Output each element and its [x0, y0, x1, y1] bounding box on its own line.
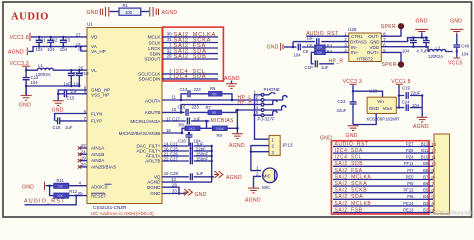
- svg-text:10K: 10K: [317, 46, 324, 50]
- wire sleeve to AGND: [236, 110, 238, 134]
- svg-text:AFILTB: AFILTB: [145, 159, 160, 164]
- svg-text:C2: C2: [52, 38, 58, 43]
- svg-text:HP_R: HP_R: [238, 99, 253, 105]
- svg-text:LRCK: LRCK: [148, 46, 161, 51]
- svg-text:B10: B10: [421, 155, 429, 160]
- wire row SAI2_SDB: [333, 165, 433, 167]
- capacitor C20: [186, 133, 193, 146]
- svg-text:VCC1.8: VCC1.8: [10, 35, 29, 41]
- svg-text:11: 11: [431, 155, 436, 160]
- wire row SAI2_FSA: [333, 172, 433, 174]
- resistor R9: [207, 127, 238, 129]
- wire SAI2_FSA pin1: [162, 47, 218, 49]
- svg-text:100K: 100K: [216, 127, 225, 131]
- capacitor C2: [47, 37, 54, 47]
- svg-text:R11: R11: [57, 178, 65, 183]
- capacitor C1: [36, 37, 43, 47]
- svg-text:1uF: 1uF: [307, 35, 315, 40]
- svg-text:AGND: AGND: [162, 10, 178, 16]
- svg-text:C40: C40: [461, 43, 469, 48]
- wire AFILTB pin22 + capacitor C27: [162, 158, 212, 165]
- svg-text:RESET: RESET: [91, 194, 107, 199]
- capacitor C18 flying cap FLYN/FLYP: [55, 114, 87, 125]
- svg-text:C8: C8: [303, 49, 309, 54]
- wire cap bank rail: [211, 146, 213, 182]
- wire LDO GND: [353, 114, 376, 125]
- svg-text:I2C4_SDA: I2C4_SDA: [174, 74, 207, 80]
- svg-text:GND: GND: [19, 102, 31, 108]
- svg-text:MICIN2/BIAS/AIN3B: MICIN2/BIAS/AIN3B: [119, 131, 161, 136]
- svg-text:1uF: 1uF: [321, 65, 329, 70]
- svg-text:104: 104: [31, 80, 39, 85]
- connector strip (right edge): [434, 134, 450, 214]
- wire row SAI2_SCKA: [333, 185, 433, 187]
- svg-text:GND: GND: [320, 136, 332, 142]
- svg-text:DGND: DGND: [147, 185, 161, 190]
- capacitor C10: [76, 70, 83, 86]
- svg-text:AIN1A: AIN1A: [91, 146, 105, 151]
- svg-text:R12: R12: [69, 189, 77, 194]
- svg-text:SAI2_SDB: SAI2_SDB: [174, 54, 207, 60]
- svg-text:22: 22: [164, 156, 169, 161]
- svg-text:B7: B7: [423, 174, 429, 179]
- svg-text:U1: U1: [87, 22, 93, 27]
- svg-text:C1P: C1P: [305, 65, 313, 70]
- svg-text:C10: C10: [81, 71, 89, 76]
- svg-text:PF11: PF11: [404, 161, 414, 166]
- svg-text:I2C Address is 0X94(AD0=0): I2C Address is 0X94(AD0=0): [91, 211, 154, 216]
- svg-text:AGND: AGND: [245, 198, 261, 204]
- svg-text:PE13: PE13: [403, 207, 414, 212]
- svg-text:VDD: VDD: [369, 45, 379, 50]
- svg-text:B9: B9: [423, 161, 429, 166]
- svg-text:104: 104: [402, 49, 410, 54]
- svg-text:GND: GND: [52, 108, 64, 114]
- wire MICIN1 pin17 + capacitor C17: [162, 118, 210, 125]
- svg-text:11: 11: [172, 94, 177, 99]
- svg-text:GND: GND: [87, 10, 99, 16]
- resistor R3: [315, 45, 326, 49]
- svg-text:AOUTA: AOUTA: [145, 98, 161, 103]
- svg-text:104: 104: [461, 52, 469, 57]
- svg-text:4.7uF: 4.7uF: [416, 49, 427, 54]
- svg-text:FLYN: FLYN: [91, 111, 102, 116]
- svg-text:C17: C17: [172, 116, 180, 121]
- svg-text:150nF: 150nF: [196, 156, 209, 161]
- wire GND pin7 rail: [381, 38, 428, 42]
- svg-text:IN-: IN-: [351, 45, 358, 50]
- wire Vout rail: [396, 85, 399, 108]
- capacitor E4: [410, 38, 417, 47]
- svg-text:C23: C23: [338, 99, 346, 104]
- capacitor C15 on VSS_HP pin9: [58, 90, 87, 97]
- svg-text:L1: L1: [38, 63, 43, 68]
- svg-text:U29: U29: [369, 88, 378, 93]
- svg-text:15: 15: [164, 171, 169, 176]
- svg-text:PE14: PE14: [403, 201, 414, 206]
- svg-text:VSS_HP: VSS_HP: [91, 92, 109, 97]
- wire SAI2_SDB pin29: [162, 58, 218, 60]
- wire I2C4_SCL pin3: [162, 73, 218, 75]
- svg-text:AGND: AGND: [8, 50, 24, 56]
- svg-text:SAI2_SCKB: SAI2_SCKB: [335, 188, 368, 194]
- svg-text:23: 23: [81, 143, 86, 148]
- svg-text:PHONE: PHONE: [264, 87, 280, 92]
- svg-text:SAI2_SDB: SAI2_SDB: [335, 161, 364, 167]
- svg-text:BYPASS: BYPASS: [350, 39, 367, 44]
- capacitor C5: [423, 38, 430, 47]
- ground AGND (mic bias): [232, 134, 243, 139]
- svg-text:B11: B11: [421, 148, 429, 153]
- svg-text:AIN1B: AIN1B: [91, 152, 104, 157]
- svg-text:10: 10: [172, 107, 177, 112]
- svg-text:CTRL: CTRL: [351, 34, 363, 39]
- wire VQ pin15 + capacitor C28: [162, 173, 212, 180]
- wire: [141, 11, 149, 13]
- svg-text:MIC: MIC: [262, 185, 271, 190]
- svg-text:PZ4: PZ4: [406, 155, 414, 160]
- svg-text:AGND: AGND: [229, 143, 245, 149]
- connector JP13: [269, 135, 280, 155]
- svg-text:GND: GND: [450, 18, 462, 24]
- svg-text:17: 17: [166, 116, 171, 121]
- svg-text:JP13: JP13: [282, 142, 293, 147]
- red highlight box (SAI2/I2C nets): [163, 27, 224, 81]
- svg-text:GND: GND: [22, 184, 34, 190]
- svg-text:GND: GND: [370, 39, 379, 44]
- wire AGND pin13 / DGND pin28 stubs: [162, 182, 212, 193]
- svg-text:100: 100: [125, 10, 133, 15]
- svg-text:7: 7: [431, 181, 434, 186]
- svg-text:VL: VL: [91, 68, 97, 73]
- wire VDD pin6 rail: [381, 47, 428, 52]
- svg-text:24: 24: [81, 149, 86, 154]
- svg-text:Vout: Vout: [383, 106, 393, 111]
- node HP_R branch: [181, 105, 261, 113]
- wire row SAI2_MCLKA: [333, 179, 433, 181]
- svg-text:104: 104: [412, 103, 420, 108]
- svg-text:8: 8: [431, 175, 434, 180]
- svg-text:PZ7: PZ7: [406, 141, 414, 146]
- svg-text:6: 6: [431, 188, 434, 193]
- wire VA rail + fork to pins 12/5: [28, 46, 87, 51]
- svg-text:PI7: PI7: [407, 168, 414, 173]
- svg-text:PE0: PE0: [406, 174, 415, 179]
- svg-text:OUT+: OUT+: [367, 50, 380, 55]
- wire row SAI2_FSB: [333, 212, 433, 214]
- svg-text:SAI2_FSB: SAI2_FSB: [335, 207, 363, 213]
- capacitor C23: [350, 91, 357, 124]
- svg-text:R6: R6: [210, 86, 216, 91]
- svg-text:33: 33: [172, 189, 177, 194]
- svg-text:MIC: MIC: [263, 173, 271, 178]
- svg-text:13: 13: [431, 142, 437, 147]
- wire jack pin5 down to JP13 pin1: [255, 115, 270, 139]
- svg-text:MCLK: MCLK: [148, 35, 162, 40]
- svg-text:PF12: PF12: [403, 188, 414, 193]
- svg-text:C28: C28: [170, 171, 178, 176]
- svg-text:C14: C14: [180, 87, 188, 92]
- capacitor C3: [60, 37, 67, 47]
- svg-text:B3: B3: [423, 201, 429, 206]
- wire GND pin33: [162, 193, 185, 195]
- jack contact hooks: [264, 92, 275, 95]
- wire row AUDIO_RST: [333, 146, 433, 148]
- svg-text:VD: VD: [91, 35, 98, 40]
- svg-text:SPKR-: SPKR-: [381, 24, 398, 30]
- wire GND_HP pin8: [58, 90, 87, 101]
- svg-text:B6: B6: [423, 181, 429, 186]
- capacitor C6 on BYPASS: [293, 38, 349, 45]
- svg-text:120R2A: 120R2A: [428, 54, 443, 59]
- wire right rail to AGND: [421, 96, 423, 118]
- wire AOUTB pin10: [162, 109, 208, 116]
- svg-text:SAI2_SDA: SAI2_SDA: [335, 194, 364, 200]
- capacitor C14 branch: [181, 90, 232, 100]
- svg-text:C20: C20: [178, 139, 186, 144]
- wire Vin: [353, 91, 383, 97]
- svg-text:1uF: 1uF: [65, 125, 73, 130]
- wire: [110, 11, 120, 13]
- power port GND arrow: [184, 189, 193, 196]
- svg-text:U28: U28: [348, 27, 357, 32]
- svg-text:R9: R9: [217, 133, 223, 138]
- wire SAI2_MCLKA pin30: [162, 36, 218, 38]
- svg-text:GND: GND: [416, 18, 428, 24]
- microphone MIC: [263, 168, 278, 183]
- wire AFILTA pin21 + capacitor C26: [162, 153, 212, 160]
- svg-text:C3: C3: [65, 38, 71, 43]
- svg-text:32: 32: [167, 48, 172, 53]
- ground AGND (LDO): [417, 117, 428, 122]
- svg-text:PI5: PI5: [407, 181, 414, 186]
- svg-text:C27: C27: [170, 156, 178, 161]
- capacitor C24: [399, 104, 422, 111]
- svg-text:R4: R4: [327, 49, 333, 54]
- svg-text:VCC5: VCC5: [448, 60, 463, 66]
- svg-text:HT6872: HT6872: [357, 56, 374, 61]
- svg-text:AUDIO: AUDIO: [11, 12, 49, 23]
- capacitor C19: [399, 92, 422, 99]
- svg-text:29: 29: [167, 54, 172, 59]
- svg-text:SDA/CDIN: SDA/CDIN: [139, 77, 161, 82]
- svg-text:SAI2_MCLKB: SAI2_MCLKB: [335, 201, 372, 207]
- svg-text:18: 18: [166, 128, 171, 133]
- svg-text:223: 223: [194, 87, 202, 92]
- wire row I2C4_SDA: [333, 152, 433, 154]
- svg-text:SAI2_FSA: SAI2_FSA: [335, 168, 363, 174]
- wire row I2C4_SCL: [333, 159, 433, 161]
- svg-text:2K2: 2K2: [189, 127, 195, 131]
- ground AGND (mic): [248, 188, 259, 193]
- svg-text:10: 10: [431, 162, 437, 167]
- capacitor C40: [453, 34, 460, 52]
- svg-text:SCLK: SCLK: [148, 40, 161, 45]
- svg-text:22uF: 22uF: [337, 108, 347, 113]
- svg-text:AD0/CS: AD0/CS: [91, 185, 108, 190]
- svg-text:R1: R1: [123, 3, 129, 8]
- svg-text:B12: B12: [421, 141, 429, 146]
- wire AOUTA pin11 to HP_L: [162, 99, 261, 101]
- svg-text:12: 12: [431, 148, 437, 153]
- svg-text:IN+: IN+: [351, 50, 359, 55]
- svg-text:SPKR+: SPKR+: [382, 62, 401, 68]
- node SPKR+: [381, 52, 401, 61]
- svg-text:10K: 10K: [57, 184, 64, 188]
- svg-text:I2C4_SDA: I2C4_SDA: [335, 148, 363, 154]
- power port VCC5: [456, 52, 458, 58]
- svg-text:I2C4_SCL: I2C4_SCL: [335, 155, 363, 161]
- svg-text:VQ: VQ: [154, 174, 161, 179]
- svg-text:VA_HP: VA_HP: [91, 49, 106, 54]
- svg-text:HP_R: HP_R: [329, 58, 344, 64]
- svg-text:CSDN @Wancodex: CSDN @Wancodex: [430, 211, 474, 217]
- jack contact circles: [261, 93, 264, 96]
- svg-text:SAI2_MCLKA: SAI2_MCLKA: [335, 174, 372, 180]
- no-connect stubs pins 23/24/19/20: [78, 146, 87, 168]
- svg-text:0R: 0R: [212, 92, 217, 96]
- svg-text:AGND: AGND: [413, 124, 429, 130]
- svg-text:AIN2A: AIN2A: [91, 158, 105, 163]
- svg-text:C18: C18: [53, 125, 61, 130]
- capacitor C9: [68, 70, 75, 86]
- svg-text:C15: C15: [67, 96, 75, 101]
- svg-text:OUT-: OUT-: [368, 34, 379, 39]
- svg-text:10K: 10K: [317, 51, 324, 55]
- wire row SAI2_SDA: [333, 198, 433, 200]
- svg-text:AIN2B/BIAS: AIN2B/BIAS: [91, 165, 116, 170]
- svg-text:SDOUT: SDOUT: [144, 57, 160, 62]
- svg-text:B2: B2: [423, 207, 429, 212]
- svg-text:CS42L51-CNZR: CS42L51-CNZR: [93, 205, 127, 210]
- svg-text:B4: B4: [423, 194, 429, 199]
- svg-text:104: 104: [294, 53, 302, 58]
- svg-text:4: 4: [431, 201, 434, 206]
- wire JP13 pin2/pin3 to MIC: [251, 146, 269, 171]
- svg-text:R3: R3: [327, 44, 333, 49]
- svg-text:E4: E4: [407, 37, 413, 42]
- svg-text:5: 5: [431, 195, 434, 200]
- svg-text:PZ5: PZ5: [406, 148, 414, 153]
- svg-text:1uF: 1uF: [196, 171, 204, 176]
- svg-text:GND: GND: [267, 44, 279, 50]
- svg-text:C1: C1: [40, 38, 46, 43]
- svg-text:9: 9: [431, 168, 434, 173]
- wire cap bottom rail to GND: [26, 86, 79, 95]
- svg-text:31: 31: [167, 37, 172, 42]
- node AUDIO_RST (bottom left): [25, 196, 77, 205]
- svg-text:1uF: 1uF: [70, 89, 78, 94]
- svg-text:20: 20: [81, 162, 86, 167]
- svg-text:PJ-327F: PJ-327F: [258, 117, 276, 122]
- wire DAC_FILT+ pin14 + capacitor C21: [162, 143, 212, 150]
- svg-text:1uF: 1uF: [193, 116, 201, 121]
- wire jack pin1 tie to pin5: [255, 95, 262, 115]
- svg-text:B5: B5: [423, 188, 429, 193]
- capacitor C12: [23, 70, 30, 95]
- svg-text:GND: GND: [150, 191, 161, 196]
- svg-text:C24: C24: [402, 100, 410, 105]
- svg-text:GND: GND: [346, 133, 358, 139]
- svg-text:XC6206P182MR: XC6206P182MR: [366, 116, 399, 121]
- node SPKR-: [381, 29, 401, 36]
- svg-text:MICIN1/AIN3A: MICIN1/AIN3A: [130, 119, 161, 124]
- wire row SAI2_MCLKB: [333, 205, 433, 207]
- wire row SAI2_SCKB: [333, 192, 433, 194]
- svg-text:MICBIAS: MICBIAS: [211, 118, 235, 124]
- wire MIC pin2 to AGND: [254, 176, 262, 188]
- svg-text:GND: GND: [369, 106, 380, 111]
- red highlight box (pin map table): [331, 141, 429, 214]
- svg-text:R8: R8: [179, 123, 185, 128]
- wire SAI2_SDA pin32: [162, 53, 218, 55]
- ground GND (under C15): [53, 101, 64, 106]
- svg-text:28: 28: [172, 182, 177, 187]
- svg-text:10K: 10K: [57, 194, 64, 198]
- svg-text:C16: C16: [178, 105, 186, 110]
- svg-text:FLYP: FLYP: [91, 118, 102, 123]
- wire SAI2_SCKA pin31: [162, 42, 218, 44]
- svg-text:30: 30: [167, 32, 172, 37]
- svg-text:0R: 0R: [212, 111, 217, 115]
- power port AGND arrow (cap bank): [212, 176, 214, 178]
- wire R7 out to jack pin4: [222, 110, 262, 112]
- ground GND (LDO): [348, 126, 359, 131]
- svg-text:GND: GND: [195, 192, 207, 198]
- capacitor C8: [293, 44, 315, 51]
- svg-text:AUDIO_RST: AUDIO_RST: [335, 141, 369, 147]
- svg-text:Vin: Vin: [377, 99, 384, 104]
- power port AGND (top filter right): [150, 7, 153, 17]
- svg-text:AUDIO_RST: AUDIO_RST: [24, 199, 66, 205]
- capacitor C1P on HP_R: [315, 60, 334, 67]
- wire I2C4_SDA pin2: [162, 78, 218, 80]
- svg-text:SAI2_SCKA: SAI2_SCKA: [335, 181, 368, 187]
- svg-text:PI6: PI6: [407, 194, 414, 199]
- svg-text:B8: B8: [423, 168, 429, 173]
- ground GND (under C12): [21, 95, 32, 100]
- wire ADC_FILT+ pin16 + capacitor C25: [162, 148, 212, 155]
- resistor R4: [315, 50, 326, 54]
- wire VD rail: [31, 36, 87, 38]
- svg-text:C19: C19: [402, 86, 410, 91]
- svg-text:AOUTB: AOUTB: [145, 110, 161, 115]
- svg-text:R7: R7: [206, 105, 212, 110]
- svg-text:AGND: AGND: [226, 175, 242, 181]
- svg-text:22uF: 22uF: [411, 90, 421, 95]
- svg-text:19: 19: [81, 156, 86, 161]
- svg-text:223: 223: [192, 105, 200, 110]
